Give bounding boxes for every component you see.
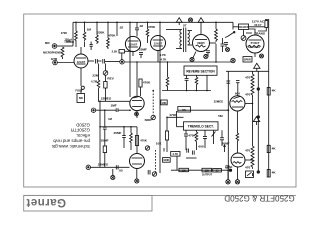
speaker symbol SP1 — [176, 18, 182, 25]
pot P2 — [241, 36, 246, 41]
svg-text:22MEG: 22MEG — [214, 99, 223, 103]
wire rail x252 mid — [252, 96, 254, 146]
wire drop from bus x73 — [72, 22, 74, 46]
svg-text:20MF: 20MF — [222, 141, 230, 145]
pot P4 speed — [152, 172, 156, 176]
svg-text:OUTPUT: OUTPUT — [202, 173, 213, 176]
svg-text:FOOT: FOOT — [75, 89, 83, 93]
capacitor C13 — [148, 170, 150, 175]
svg-text:5K: 5K — [182, 108, 186, 112]
svg-text:.05: .05 — [118, 169, 123, 173]
input jack J1 — [52, 44, 57, 49]
node footswitch contact — [81, 86, 84, 89]
wire right HT rail — [265, 20, 269, 178]
tube V8 12AU7 — [230, 96, 245, 111]
wire mains — [232, 22, 234, 29]
svg-text:TRANS: TRANS — [254, 31, 265, 35]
node jack J4 — [231, 58, 235, 62]
svg-text:MICROPHONE: MICROPHONE — [43, 50, 61, 54]
resistor R16 — [195, 130, 198, 150]
resistor R23 box — [267, 88, 270, 96]
pot P5 arrow — [212, 130, 216, 144]
wire coupling bus — [124, 61, 231, 63]
wire V4 plate — [200, 25, 202, 35]
lamp PL1 — [188, 18, 192, 22]
svg-text:470K: 470K — [148, 25, 156, 29]
wire J2 to V1 grid — [57, 62, 74, 64]
capacitor C1 — [96, 59, 102, 64]
resistor R18 box — [163, 158, 171, 163]
svg-text:22M: 22M — [92, 74, 98, 78]
svg-text:G250FTR & G250D: G250FTR & G250D — [224, 194, 294, 203]
node jack J5 — [86, 165, 90, 169]
wire switch to fuse — [249, 26, 265, 28]
capacitor C9 — [185, 75, 189, 90]
resistor R9 cathode — [119, 50, 133, 60]
svg-text:100: 100 — [205, 170, 210, 173]
wire heater — [246, 32, 252, 34]
svg-text:120pf: 120pf — [64, 38, 71, 42]
wire reverb send — [98, 100, 130, 102]
capacitor C2 — [103, 59, 120, 64]
rail x252 — [252, 71, 254, 74]
wire drop x117 — [116, 22, 118, 36]
node ground V4 — [204, 54, 208, 58]
fuse F1 — [265, 20, 268, 28]
svg-text:470K: 470K — [108, 34, 116, 38]
node jack J3 — [120, 60, 124, 64]
wire mains to switch — [233, 26, 239, 28]
svg-text:470K: 470K — [143, 80, 151, 84]
node junction D1 — [135, 112, 139, 116]
svg-text:220K: 220K — [97, 31, 105, 35]
svg-text:4.7K: 4.7K — [173, 152, 179, 156]
svg-text:12AX7: 12AX7 — [77, 60, 86, 64]
svg-text:6BQ5: 6BQ5 — [197, 41, 205, 45]
resistor R12 — [195, 75, 198, 90]
title strip top line — [24, 194, 296, 196]
resistor R26 box — [177, 107, 191, 127]
footswitch box FS1 — [77, 89, 85, 102]
svg-text:SW: SW — [79, 96, 84, 100]
svg-text:470: 470 — [245, 92, 250, 96]
resistor R1 grid — [61, 47, 64, 59]
wire bus y126 — [100, 126, 137, 128]
rail x258 — [257, 71, 259, 172]
svg-text:100K: 100K — [163, 158, 169, 162]
wire dashed link — [152, 91, 154, 116]
svg-text:10K: 10K — [161, 101, 166, 105]
tube V4 6BQ5 — [193, 35, 210, 52]
svg-text:NOR: NOR — [145, 118, 153, 122]
capacitor C16 — [220, 130, 224, 146]
wire drop to tremolo — [136, 62, 138, 96]
node ground G4 — [135, 169, 139, 184]
wire dashed trem — [155, 150, 157, 172]
node wire junction dots — [99, 61, 253, 171]
node D4 — [257, 116, 259, 118]
svg-text:MIC: MIC — [45, 41, 50, 45]
input jack J2 — [53, 60, 58, 65]
capacitor C7 — [221, 38, 225, 52]
svg-text:4.7K: 4.7K — [161, 58, 167, 62]
svg-text:470: 470 — [245, 75, 250, 79]
node grommet — [260, 54, 264, 58]
capacitor C22 — [226, 166, 230, 168]
resistor R28 — [130, 127, 133, 150]
svg-text:60 CY: 60 CY — [254, 23, 261, 27]
resistor R30 — [236, 133, 239, 142]
node ground G6 — [226, 180, 230, 184]
rail drop x130 — [129, 22, 131, 97]
node D5 — [257, 171, 259, 173]
svg-text:22MEG: 22MEG — [98, 162, 109, 166]
node ground G2 — [226, 48, 230, 52]
svg-text:G250D: G250D — [76, 123, 90, 128]
wire box A out — [206, 75, 208, 90]
capacitor C14 — [184, 130, 188, 150]
wire fuse down — [258, 28, 266, 32]
svg-text:REVERB SECTION: REVERB SECTION — [186, 70, 215, 74]
svg-text:22MEG: 22MEG — [101, 97, 112, 101]
svg-text:100: 100 — [182, 169, 187, 172]
lamp PL2 — [190, 52, 196, 62]
wire V3 cathode — [157, 51, 159, 63]
wire box B feed — [167, 116, 184, 118]
tremolo box B — [184, 122, 219, 130]
svg-text:470: 470 — [245, 148, 250, 152]
capacitor C8 — [224, 43, 228, 48]
svg-text:TREMOLO SECT.: TREMOLO SECT. — [188, 125, 214, 129]
capacitor C12 — [116, 165, 118, 169]
input jack J6 reverb — [91, 108, 95, 112]
choke R10 — [215, 22, 218, 62]
wire pot stem — [243, 30, 245, 36]
reverb box A — [184, 66, 217, 75]
resistor R22 — [251, 146, 254, 169]
svg-text:600: 600 — [198, 144, 203, 148]
wire screen — [210, 42, 217, 44]
wire V6 cathode — [136, 111, 138, 118]
capacitor C21 — [236, 81, 240, 96]
svg-text:2.2K: 2.2K — [112, 49, 118, 53]
wire V9 top — [236, 111, 238, 133]
resistor R24 box — [267, 145, 270, 152]
speaker symbol SP4 — [253, 117, 259, 125]
capacitor C5 bypass — [139, 53, 143, 59]
svg-text:effects.: effects. — [76, 133, 90, 138]
wire V6 to trem tube — [136, 127, 138, 154]
resistor R21 — [251, 74, 254, 97]
svg-text:25MF: 25MF — [114, 131, 122, 135]
wire grid stub — [66, 41, 73, 43]
svg-text:12AX7: 12AX7 — [129, 42, 138, 46]
component value labels — [43, 19, 276, 176]
capacitor C23 — [90, 42, 93, 51]
svg-text:4.7K: 4.7K — [159, 53, 166, 57]
wire R30 to V9 — [236, 142, 238, 153]
capacitor C17 — [187, 149, 189, 153]
output jack box — [246, 171, 254, 178]
svg-text:Garnet: Garnet — [26, 196, 66, 208]
resistor R3 — [83, 22, 86, 47]
svg-text:SPKR: SPKR — [244, 59, 251, 62]
svg-text:4.7M: 4.7M — [91, 79, 98, 83]
resistor R17 box — [171, 152, 180, 157]
resistor R27 box — [161, 100, 167, 105]
resistor R4 — [96, 22, 99, 44]
tube V5 rectifier 5Y3 — [246, 35, 264, 53]
node D3 — [257, 88, 259, 90]
wire bottom bus — [91, 166, 130, 168]
rail x160 lower — [159, 62, 161, 173]
wire top B+ bus — [73, 21, 233, 23]
wire output bus — [171, 169, 231, 171]
svg-text:470: 470 — [245, 165, 250, 169]
capacitor C24 — [122, 127, 126, 148]
node ground G7 — [235, 167, 239, 184]
resistor R11 — [166, 62, 169, 91]
node ground G3 — [111, 169, 115, 180]
wire sub left — [163, 148, 165, 152]
switch SW1 box — [239, 24, 249, 30]
svg-text:1MF: 1MF — [111, 104, 117, 108]
wire feed y110 — [178, 109, 228, 111]
svg-text:470K: 470K — [140, 139, 147, 143]
border frame — [24, 14, 296, 187]
wire V5 plate top — [249, 29, 255, 35]
svg-text:OT: OT — [183, 25, 187, 28]
speaker symbol SP3 — [254, 63, 261, 71]
node ground G1 — [121, 61, 123, 63]
svg-text:pre-amps and revb: pre-amps and revb — [53, 139, 90, 144]
capacitor C18 — [192, 151, 194, 155]
resistor R13 box — [139, 79, 142, 96]
node junction D2 — [229, 169, 231, 171]
wire drop x100 — [99, 101, 101, 167]
svg-text:470K: 470K — [169, 113, 177, 117]
transformer T1 output — [166, 28, 192, 53]
wire y158 — [186, 157, 197, 159]
svg-text:1M: 1M — [87, 28, 92, 32]
svg-text:ON-OFF: ON-OFF — [238, 25, 248, 29]
watermark text block (rotated 180) — [51, 123, 90, 150]
pot P6 — [145, 146, 149, 150]
resistor R7 box — [104, 75, 107, 101]
svg-text:GTR: GTR — [51, 57, 58, 61]
svg-text:.02: .02 — [119, 26, 124, 30]
switch SW2 — [225, 31, 235, 37]
capacitor C20 — [225, 86, 229, 88]
title block box — [24, 195, 152, 211]
svg-text:.02: .02 — [139, 24, 144, 28]
tube V6 12AX7 — [130, 96, 144, 110]
resistor R15 box — [165, 117, 168, 152]
capacitor C19 — [226, 81, 230, 83]
rail x160 — [159, 22, 161, 62]
resistor R20b box — [213, 169, 222, 173]
node bus junctions — [72, 22, 217, 43]
svg-text:12AX7: 12AX7 — [154, 41, 163, 45]
resistor R6 — [97, 64, 100, 102]
resistor R2 plate — [75, 22, 78, 47]
svg-text:560: 560 — [218, 114, 223, 118]
svg-text:470K: 470K — [188, 133, 196, 137]
wire V9 out — [245, 159, 253, 161]
pot P1 reverb — [103, 64, 108, 76]
svg-text:RECTIFIER: RECTIFIER — [248, 47, 260, 49]
wire bus y90 — [162, 90, 211, 92]
svg-text:6C4: 6C4 — [235, 91, 240, 95]
resistor R19 box — [179, 168, 189, 171]
wire V8 out — [245, 102, 253, 104]
wire drop x104.8 — [104, 110, 106, 167]
wire J1 to grid — [57, 45, 73, 47]
wire V1 cathode — [80, 68, 82, 86]
standby switch box — [243, 57, 252, 62]
tube V3 12AX7 — [151, 36, 166, 51]
speaker symbol SP2 — [198, 18, 204, 25]
svg-text:5Y3GT: 5Y3GT — [251, 41, 260, 45]
tube V1 12AX7 — [74, 54, 88, 68]
wire V1 top — [80, 47, 82, 54]
svg-text:10K: 10K — [156, 142, 162, 146]
tube V2 12AX7 — [125, 36, 140, 51]
svg-text:117V AC: 117V AC — [252, 19, 265, 23]
capacitor C3 — [96, 108, 130, 112]
wire rail x252 bottom — [252, 173, 254, 176]
tube V9 12AX7 — [231, 153, 245, 167]
resistor R29 box — [135, 136, 138, 146]
resistor R8 — [146, 22, 149, 43]
capacitor C15 — [203, 130, 207, 148]
wire sub mid — [176, 156, 178, 170]
wire arrow stub — [224, 145, 226, 152]
svg-text:470K: 470K — [61, 31, 67, 35]
resistor R5 — [107, 22, 110, 49]
wire power y71 — [226, 70, 269, 72]
resistor R20 box — [202, 168, 212, 172]
tube V7 12AX7 — [130, 154, 145, 169]
resistor R14 box — [103, 146, 106, 153]
svg-text:25MF: 25MF — [139, 48, 147, 52]
capacitor C10 — [103, 127, 107, 129]
capacitor C6 — [206, 51, 210, 57]
wire V1 plate out — [88, 60, 94, 62]
capacitor C4 plate — [135, 22, 139, 36]
wire ground drop — [227, 170, 229, 179]
svg-text:25MF: 25MF — [101, 139, 109, 143]
svg-text:L-PAD: L-PAD — [225, 166, 233, 169]
resistor R25 box — [267, 170, 270, 178]
pot P3 depth — [151, 115, 155, 119]
svg-text:REV: REV — [107, 76, 114, 80]
wire V5 down — [254, 53, 256, 57]
svg-text:Schematic www.gts: Schematic www.gts — [51, 144, 90, 149]
rail x228 — [227, 71, 229, 179]
